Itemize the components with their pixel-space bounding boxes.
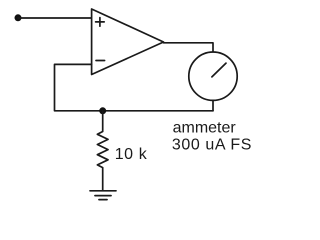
wire input to op-amp +	[18, 17, 92, 19]
wire feedback from - input down to junction	[55, 64, 103, 110]
op-amp + input marking	[96, 18, 105, 27]
wire junction to ammeter bottom	[103, 110, 213, 112]
node input terminal	[15, 14, 22, 21]
ground	[90, 191, 116, 200]
label ammeter	[173, 120, 237, 137]
wire op-amp output to ammeter top	[164, 43, 214, 52]
ammeter M1	[189, 52, 237, 100]
resistor R1	[97, 111, 108, 191]
svg-text:10 k: 10 k	[115, 146, 148, 163]
op-amp - input marking	[96, 60, 105, 62]
svg-text:ammeter: ammeter	[173, 120, 237, 137]
wire ammeter bottom down	[212, 100, 214, 110]
op-amp U1	[92, 9, 164, 75]
label 300 uA FS	[172, 137, 252, 154]
label 10 k	[115, 146, 148, 163]
svg-text:300 uA FS: 300 uA FS	[172, 137, 252, 154]
node junction	[99, 107, 106, 114]
